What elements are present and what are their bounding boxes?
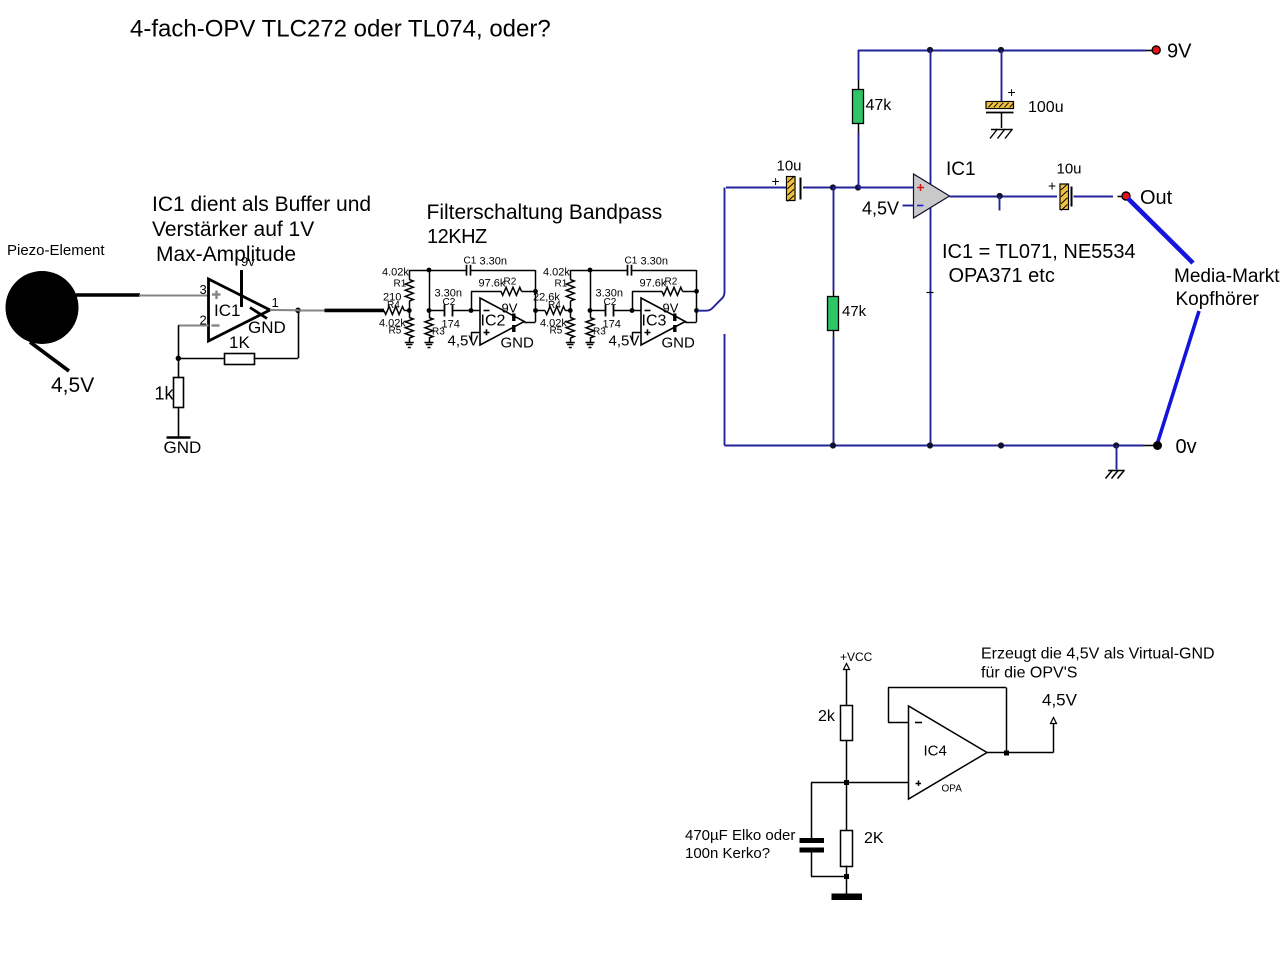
svg-text:9v: 9v	[241, 254, 255, 269]
svg-text:4-fach-OPV TLC272 oder TL074,: 4-fach-OPV TLC272 oder TL074, oder?	[130, 16, 551, 43]
resistor R4 22,6k input (IC3 stage)	[533, 292, 570, 315]
wire VCC to 2k	[846, 670, 848, 706]
node R2 right (IC3 stage)	[694, 289, 699, 294]
wire C2/R3 branch riser (IC2 stage)	[429, 270, 431, 311]
wire signal row to cap 10u	[726, 187, 787, 189]
ground below R5 (IC3 stage)	[566, 343, 575, 348]
svg-text:1: 1	[272, 295, 279, 310]
terminal 4,5V output	[1042, 691, 1078, 753]
resistor R5 4.02k (IC2 stage)	[379, 311, 413, 343]
svg-text:4,5V: 4,5V	[1042, 691, 1078, 710]
wire piezo to IC1 + input	[76, 293, 140, 297]
node R2 right (IC2 stage)	[533, 289, 538, 294]
headphone wire from Out	[1128, 199, 1193, 264]
svg-text:+: +	[1048, 178, 1056, 194]
0v rail	[725, 334, 1154, 446]
svg-text:für die OPV'S: für die OPV'S	[981, 665, 1077, 682]
annotation IC1 types	[942, 241, 1136, 287]
wire non-inverting input 4,5V (IC2 stage)	[448, 332, 481, 349]
terminal Out	[1118, 187, 1173, 209]
resistor R1 4.02k (IC2 stage)	[382, 267, 413, 311]
svg-text:0v: 0v	[1176, 436, 1197, 458]
resistor 2K lower	[841, 783, 884, 877]
svg-text:1k: 1k	[155, 384, 175, 404]
svg-text:IC1 dient als Buffer und: IC1 dient als Buffer und	[152, 193, 371, 216]
resistor R3 174 (IC3 stage)	[586, 311, 621, 343]
svg-text:IC4: IC4	[924, 743, 947, 760]
resistor 47k divider lower	[828, 188, 867, 446]
node output (IC2 stage)	[533, 308, 538, 313]
svg-text:GND: GND	[164, 438, 202, 457]
node top C1 branch (IC2 stage)	[427, 268, 432, 273]
wire inverting input (IC2 stage)	[471, 310, 480, 312]
node inverting input (IC3 stage)	[630, 308, 635, 313]
node 9V rail / IC1 supply column	[927, 47, 933, 53]
wire non-inverting input 4,5V (IC3 stage)	[609, 332, 642, 349]
node IC1 output	[295, 308, 301, 314]
svg-text:Kopfhörer: Kopfhörer	[1176, 289, 1260, 310]
wire IC1 - input stub 4,5V	[862, 199, 914, 219]
IC1 GND pin slash	[248, 308, 286, 338]
svg-text:R3: R3	[432, 327, 445, 338]
IC3 GND pin	[662, 325, 696, 352]
svg-text:IC1: IC1	[946, 159, 976, 180]
capacitor C2 3.30n (IC3 stage)	[590, 288, 632, 317]
node cap/2K bottom	[844, 874, 849, 879]
IC2 9V pin	[502, 301, 518, 322]
capacitor C1 3.30n (IC3 stage)	[625, 256, 697, 276]
annotation: IC1 buffer description	[152, 193, 371, 266]
svg-text:Erzeugt die 4,5V als Virtual-G: Erzeugt die 4,5V als Virtual-GND	[981, 646, 1215, 663]
svg-text:4,5V: 4,5V	[51, 374, 94, 397]
IC1 9V supply pin	[241, 254, 255, 307]
resistor R1 4.02k (IC3 stage)	[543, 267, 574, 311]
op-amp IC3	[641, 298, 685, 345]
ground below R5 (IC2 stage)	[405, 343, 414, 348]
svg-text:+VCC: +VCC	[840, 650, 873, 664]
resistor R4 210 input (IC2 stage)	[383, 292, 409, 315]
svg-text:Verstärker auf 1V: Verstärker auf 1V	[152, 218, 314, 241]
svg-text:470µF Elko oder: 470µF Elko oder	[685, 827, 795, 844]
svg-text:9V: 9V	[1167, 41, 1192, 63]
node output junction	[997, 193, 1003, 211]
svg-text:4.02k: 4.02k	[382, 267, 409, 279]
resistor R5 4.02k (IC3 stage)	[540, 311, 574, 343]
svg-text:4,5V: 4,5V	[862, 199, 899, 219]
node C2/R3 (IC2 stage)	[427, 308, 432, 313]
svg-text:Media-Markt: Media-Markt	[1174, 266, 1280, 287]
annotation Media-Markt Kopfhörer	[1174, 266, 1280, 310]
svg-text:2K: 2K	[864, 830, 884, 847]
svg-text:Out: Out	[1140, 187, 1173, 209]
capacitor 10u input coupling	[772, 158, 834, 202]
op-amp IC1 buffer	[200, 279, 279, 341]
svg-text:R2: R2	[665, 277, 678, 288]
wire inverting input (IC3 stage)	[632, 310, 641, 312]
annotation: filter description	[427, 201, 663, 248]
wire node to IC4 + input	[847, 782, 909, 784]
op-amp IC1 output driver	[914, 159, 976, 218]
capacitor 100u supply decoupling	[986, 50, 1064, 128]
wire stage1 to stage2	[536, 310, 546, 312]
capacitor C2 3.30n (IC2 stage)	[429, 288, 471, 317]
wire node to cap branch	[811, 783, 847, 839]
node output (IC3 stage)	[694, 308, 699, 313]
svg-text:R5: R5	[550, 326, 563, 337]
svg-text:10u: 10u	[1057, 161, 1082, 178]
node C2/R3 (IC3 stage)	[588, 308, 593, 313]
wire IC1 supply column	[927, 50, 934, 446]
annotation virtual GND description	[981, 646, 1215, 682]
resistor R3 174 (IC2 stage)	[425, 311, 460, 343]
wire C2/R3 branch riser (IC3 stage)	[590, 270, 592, 311]
svg-text:R3: R3	[593, 327, 606, 338]
ground bar IC4 section	[832, 877, 863, 901]
op-amp IC2	[480, 298, 524, 345]
svg-text:9V: 9V	[502, 301, 518, 316]
node top C1 branch (IC3 stage)	[588, 268, 593, 273]
node 0v/output stub column	[998, 442, 1004, 448]
op-amp IC4	[909, 706, 988, 799]
terminal +VCC	[840, 650, 873, 670]
capacitor C1 3.30n (IC2 stage)	[464, 256, 536, 276]
wire IC4 output	[987, 752, 1054, 754]
resistor R2 97.6k feedback (IC3 stage)	[632, 277, 697, 311]
wire to second node	[833, 187, 858, 189]
svg-text:100n Kerko?: 100n Kerko?	[685, 845, 770, 862]
svg-text:97.6k: 97.6k	[479, 278, 506, 290]
svg-text:+: +	[772, 173, 780, 189]
wire output right rail (IC2 stage)	[524, 270, 535, 323]
node inverting input (IC2 stage)	[469, 308, 474, 313]
svg-text:GND: GND	[662, 335, 696, 352]
resistor 47k pull-up	[853, 50, 893, 188]
svg-text:Filterschaltung Bandpass: Filterschaltung Bandpass	[427, 201, 663, 224]
svg-text:100u: 100u	[1028, 99, 1064, 116]
svg-text:OPA: OPA	[942, 784, 963, 795]
svg-text:4,5V: 4,5V	[609, 333, 640, 350]
resistor 1k to GND	[155, 358, 184, 437]
terminal 0v	[1153, 436, 1197, 458]
svg-text:Piezo-Element: Piezo-Element	[7, 242, 105, 259]
node feedback junction	[176, 356, 181, 361]
ground below R3 (IC3 stage)	[586, 343, 595, 348]
svg-text:R2: R2	[504, 277, 517, 288]
svg-text:4.02k: 4.02k	[543, 267, 570, 279]
wire 2k to node	[846, 741, 848, 783]
wire into IC1 + input	[858, 187, 914, 189]
svg-text:9V: 9V	[663, 301, 679, 316]
node 0v/47k	[830, 442, 836, 448]
node 0v/IC1 column	[927, 442, 933, 448]
wire IC1 output	[270, 309, 298, 311]
IC2 GND pin	[501, 325, 535, 352]
svg-text:1K: 1K	[229, 333, 250, 352]
svg-text:3.30n: 3.30n	[480, 256, 508, 268]
ground below 100u	[990, 129, 1013, 139]
svg-text:Max-Amplitude: Max-Amplitude	[156, 243, 296, 266]
svg-text:47k: 47k	[842, 303, 867, 320]
wire IC1 output	[950, 196, 1058, 198]
svg-text:R5: R5	[389, 326, 402, 337]
node IC4 output/feedback	[1004, 751, 1009, 756]
node divider midpoint	[844, 780, 849, 785]
wire top feedback (IC3 stage)	[570, 270, 627, 272]
node R4/R1/R5 (IC2 stage)	[407, 308, 412, 313]
svg-text:12KHZ: 12KHZ	[427, 226, 487, 248]
resistor 2k upper	[818, 706, 853, 741]
ground below 0v rail	[1106, 446, 1125, 479]
capacitor 10u output coupling	[1048, 161, 1113, 211]
svg-text:97.6k: 97.6k	[640, 278, 667, 290]
ground GND below 1k	[164, 438, 202, 458]
wire output right rail (IC3 stage)	[685, 270, 696, 323]
svg-text:2k: 2k	[818, 708, 836, 725]
svg-text:OPA371 etc: OPA371 etc	[949, 265, 1055, 287]
capacitor 470uF Elko	[800, 838, 847, 877]
wire top feedback (IC2 stage)	[409, 270, 466, 272]
IC3 9V pin	[663, 301, 679, 322]
node R4/R1/R5 (IC3 stage)	[568, 308, 573, 313]
headphone wire to 0v	[1158, 311, 1200, 443]
svg-text:10u: 10u	[777, 158, 802, 175]
wire IC4 feedback loop	[888, 688, 1007, 753]
9V supply rail	[858, 50, 1153, 52]
resistor 1K feedback	[178, 310, 298, 364]
terminal 9V	[1152, 41, 1192, 63]
piezo element transducer	[6, 242, 106, 397]
svg-text:IC1 = TL071, NE5534: IC1 = TL071, NE5534	[942, 241, 1136, 263]
ground below R3 (IC2 stage)	[425, 343, 434, 348]
svg-text:IC1: IC1	[214, 301, 240, 320]
node 47k top divider	[855, 184, 861, 190]
svg-text:47k: 47k	[866, 97, 893, 114]
svg-text:GND: GND	[248, 318, 286, 337]
node 9V rail / 100u branch	[998, 47, 1004, 53]
svg-text:+: +	[1008, 84, 1016, 100]
node cap/47k-divider	[830, 184, 836, 190]
wire filter output to coupling cap (squiggle riser)	[698, 188, 725, 311]
svg-text:3: 3	[200, 282, 207, 297]
wire IC1 inverting input	[178, 325, 209, 327]
svg-text:3.30n: 3.30n	[641, 256, 669, 268]
annotation cap question	[685, 827, 795, 862]
svg-text:4,5V: 4,5V	[448, 333, 479, 350]
resistor R2 97.6k feedback (IC2 stage)	[471, 277, 536, 311]
svg-text:GND: GND	[501, 335, 535, 352]
node 0v/ground	[1113, 442, 1119, 448]
